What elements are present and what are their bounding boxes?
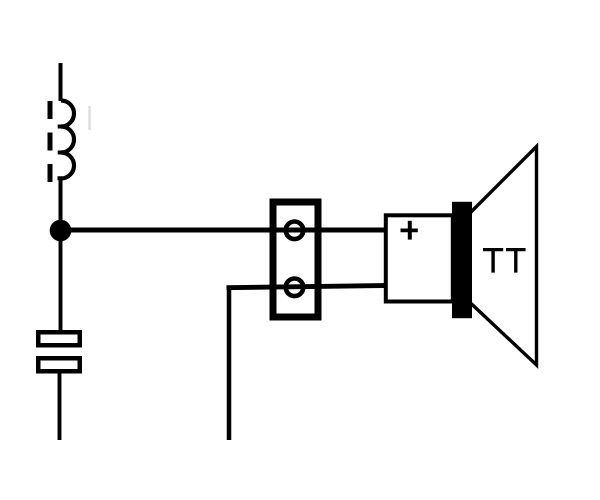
wire vertical middle [227, 286, 232, 441]
node junction [50, 220, 72, 242]
label TT [483, 248, 526, 273]
wire coil bottom lead [59, 177, 63, 232]
wire node to capacitor [59, 230, 63, 332]
terminal circle upper [286, 222, 304, 240]
speaker cone [470, 147, 537, 366]
wire horizontal top [61, 228, 386, 233]
terminal circle lower [286, 279, 304, 297]
plus sign [401, 228, 418, 232]
inductor core (dashed) [48, 101, 53, 182]
wire horizontal bottom [227, 286, 387, 288]
speaker driver box [386, 215, 453, 301]
artifact line [88, 106, 91, 130]
coil cusp stubs [58, 127, 64, 179]
speaker bar [452, 202, 472, 318]
wire top lead [59, 63, 63, 101]
terminal block [273, 202, 318, 317]
inductor L1 [61, 101, 74, 179]
wire capacitor to bottom [58, 372, 62, 440]
capacitor plate 1 [38, 332, 80, 345]
capacitor plate 2 [38, 358, 80, 371]
